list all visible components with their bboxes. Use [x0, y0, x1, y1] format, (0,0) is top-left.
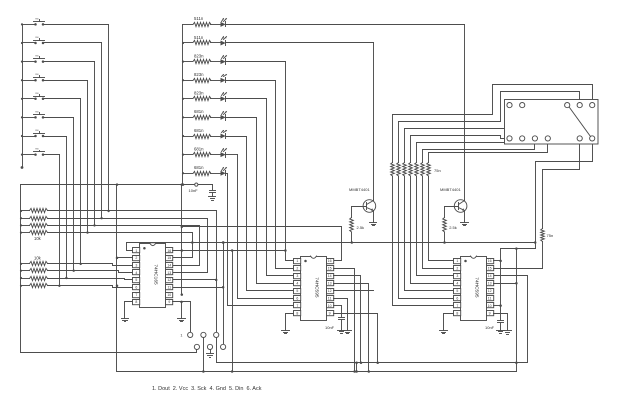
svg-text:sw: sw — [35, 72, 39, 76]
svg-text:681n: 681n — [194, 146, 204, 151]
svg-text:15: 15 — [328, 267, 332, 271]
svg-text:15: 15 — [167, 256, 171, 260]
svg-text:sw: sw — [35, 128, 39, 132]
svg-text:681n: 681n — [194, 109, 204, 114]
svg-text:3: 3 — [456, 274, 458, 278]
svg-text:5: 5 — [135, 278, 137, 282]
svg-text:2.5k: 2.5k — [357, 225, 365, 230]
svg-text:2: 2 — [135, 256, 137, 260]
svg-text:MMBT4401: MMBT4401 — [349, 187, 370, 192]
svg-text:12: 12 — [167, 278, 171, 282]
svg-text:7: 7 — [296, 304, 298, 308]
svg-text:11: 11 — [167, 286, 171, 290]
svg-text:681n: 681n — [194, 165, 204, 170]
svg-text:9: 9 — [168, 300, 170, 304]
svg-text:6: 6 — [456, 296, 458, 300]
svg-text:9: 9 — [489, 311, 491, 315]
svg-text:10nF: 10nF — [189, 188, 199, 193]
svg-text:10nF: 10nF — [325, 325, 335, 330]
svg-text:2: 2 — [296, 267, 298, 271]
svg-text:2: 2 — [456, 267, 458, 271]
svg-text:823n: 823n — [194, 91, 204, 96]
svg-text:74HC595: 74HC595 — [473, 277, 479, 298]
svg-text:10: 10 — [167, 293, 171, 297]
svg-text:13: 13 — [167, 271, 171, 275]
svg-text:7: 7 — [135, 293, 137, 297]
svg-text:5: 5 — [296, 289, 298, 293]
svg-text:75n: 75n — [547, 233, 554, 238]
svg-text:MMBT4401: MMBT4401 — [440, 187, 461, 192]
svg-text:11: 11 — [328, 296, 332, 300]
svg-text:3: 3 — [135, 264, 137, 268]
svg-text:681n: 681n — [194, 128, 204, 133]
svg-text:13: 13 — [488, 282, 492, 286]
svg-text:2.5k: 2.5k — [449, 225, 457, 230]
svg-text:75n: 75n — [434, 168, 441, 173]
svg-text:511n: 511n — [194, 35, 204, 40]
svg-text:sw: sw — [35, 147, 39, 151]
svg-text:16: 16 — [328, 259, 332, 263]
svg-text:14: 14 — [167, 264, 171, 268]
svg-text:4: 4 — [135, 271, 137, 275]
svg-text:10: 10 — [328, 304, 332, 308]
svg-text:sw: sw — [35, 35, 39, 39]
svg-text:12: 12 — [328, 289, 332, 293]
svg-text:1: 1 — [180, 334, 182, 338]
svg-text:3: 3 — [296, 274, 298, 278]
svg-text:15: 15 — [488, 267, 492, 271]
svg-text:sw: sw — [35, 91, 39, 95]
svg-text:sw: sw — [35, 54, 39, 58]
svg-text:10: 10 — [488, 304, 492, 308]
svg-text:12: 12 — [488, 289, 492, 293]
svg-text:1: 1 — [135, 249, 137, 253]
svg-text:4: 4 — [456, 282, 458, 286]
svg-text:10k: 10k — [34, 236, 42, 241]
svg-text:16: 16 — [488, 259, 492, 263]
svg-text:6: 6 — [296, 296, 298, 300]
svg-text:74HC165: 74HC165 — [153, 264, 159, 285]
svg-text:14: 14 — [488, 274, 492, 278]
svg-text:1. Dout 2. Vcc 3. Sck 4. Gn: 1. Dout 2. Vcc 3. Sck 4. Gnd 5. Din 6. A… — [152, 386, 262, 392]
svg-text:74HC595: 74HC595 — [313, 277, 319, 298]
svg-text:10nF: 10nF — [485, 325, 495, 330]
svg-text:6: 6 — [135, 286, 137, 290]
svg-text:10k: 10k — [34, 255, 42, 260]
svg-text:823n: 823n — [194, 72, 204, 77]
svg-text:1: 1 — [456, 259, 458, 263]
svg-text:5: 5 — [456, 289, 458, 293]
svg-text:13: 13 — [328, 282, 332, 286]
svg-text:8: 8 — [456, 311, 458, 315]
svg-text:823n: 823n — [194, 53, 204, 58]
svg-text:sw: sw — [35, 16, 39, 20]
svg-text:16: 16 — [167, 249, 171, 253]
svg-text:4: 4 — [296, 282, 298, 286]
svg-text:8: 8 — [296, 311, 298, 315]
svg-text:1: 1 — [296, 259, 298, 263]
svg-text:9: 9 — [329, 311, 331, 315]
svg-text:14: 14 — [328, 274, 332, 278]
svg-text:11: 11 — [488, 296, 492, 300]
svg-text:sw: sw — [35, 109, 39, 113]
svg-text:8: 8 — [135, 300, 137, 304]
svg-text:7: 7 — [456, 304, 458, 308]
svg-text:511n: 511n — [194, 16, 204, 21]
